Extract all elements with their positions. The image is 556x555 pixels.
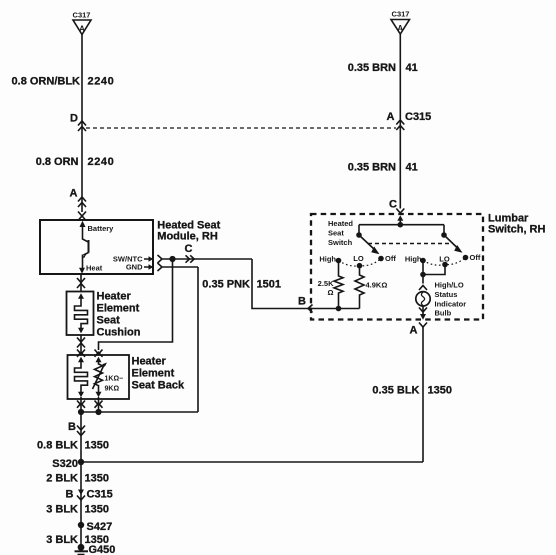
svg-text:0.35 PNK: 0.35 PNK bbox=[202, 279, 250, 291]
svg-text:Bulb: Bulb bbox=[435, 309, 452, 318]
svg-text:A: A bbox=[79, 25, 85, 34]
svg-text:Heater: Heater bbox=[132, 356, 167, 368]
svg-text:0.8 ORN: 0.8 ORN bbox=[36, 156, 79, 168]
svg-text:High: High bbox=[319, 255, 336, 264]
svg-text:Module, RH: Module, RH bbox=[157, 231, 218, 243]
svg-text:Indicator: Indicator bbox=[435, 300, 467, 309]
svg-text:High/LO: High/LO bbox=[435, 281, 464, 290]
svg-text:C315: C315 bbox=[405, 111, 431, 123]
svg-text:1350: 1350 bbox=[85, 440, 109, 452]
svg-text:1350: 1350 bbox=[85, 473, 109, 485]
svg-text:1KΩ−: 1KΩ− bbox=[105, 376, 124, 383]
svg-text:Off: Off bbox=[470, 253, 481, 262]
svg-text:S320: S320 bbox=[52, 458, 78, 470]
svg-text:A: A bbox=[397, 24, 403, 33]
svg-text:0.8 BLK: 0.8 BLK bbox=[37, 440, 78, 452]
svg-text:Seat: Seat bbox=[97, 315, 121, 327]
svg-text:B: B bbox=[298, 296, 306, 308]
svg-text:2.5K: 2.5K bbox=[318, 279, 334, 288]
svg-text:Seat Back: Seat Back bbox=[132, 380, 185, 392]
svg-text:Heated: Heated bbox=[328, 219, 353, 228]
svg-text:C315: C315 bbox=[87, 489, 113, 501]
svg-text:2240: 2240 bbox=[88, 156, 115, 168]
svg-text:B: B bbox=[68, 421, 76, 433]
svg-text:A: A bbox=[387, 111, 395, 123]
svg-text:Ω: Ω bbox=[327, 288, 333, 297]
svg-text:3 BLK: 3 BLK bbox=[46, 504, 78, 516]
svg-text:A: A bbox=[410, 325, 418, 337]
svg-text:LO: LO bbox=[439, 255, 450, 264]
svg-text:4.9KΩ: 4.9KΩ bbox=[366, 281, 388, 290]
svg-text:Seat: Seat bbox=[328, 229, 344, 238]
svg-text:Switch, RH: Switch, RH bbox=[488, 224, 546, 236]
svg-text:1350: 1350 bbox=[428, 385, 452, 397]
svg-text:G450: G450 bbox=[89, 544, 116, 555]
svg-text:9KΩ: 9KΩ bbox=[105, 386, 120, 393]
svg-text:C317: C317 bbox=[73, 11, 91, 20]
svg-text:Cushion: Cushion bbox=[97, 327, 141, 339]
svg-text:2 BLK: 2 BLK bbox=[46, 473, 78, 485]
svg-text:LO: LO bbox=[353, 254, 364, 263]
svg-text:Heater: Heater bbox=[97, 291, 132, 303]
svg-text:41: 41 bbox=[406, 62, 418, 74]
svg-text:Status: Status bbox=[435, 290, 458, 299]
svg-text:GND: GND bbox=[126, 263, 143, 272]
svg-text:Switch: Switch bbox=[328, 238, 353, 247]
svg-text:2240: 2240 bbox=[88, 76, 115, 88]
svg-text:Heat: Heat bbox=[86, 264, 103, 273]
svg-text:Element: Element bbox=[97, 303, 140, 315]
svg-text:B: B bbox=[66, 489, 74, 501]
svg-text:D: D bbox=[70, 113, 78, 125]
svg-text:Battery: Battery bbox=[88, 224, 115, 233]
svg-text:Element: Element bbox=[132, 368, 175, 380]
svg-text:1350: 1350 bbox=[85, 504, 109, 516]
svg-text:S427: S427 bbox=[87, 521, 113, 533]
svg-text:High: High bbox=[405, 255, 422, 264]
svg-text:0.35 BLK: 0.35 BLK bbox=[372, 385, 419, 397]
svg-text:Off: Off bbox=[385, 254, 396, 263]
svg-text:0.35 BRN: 0.35 BRN bbox=[348, 62, 396, 74]
svg-text:C: C bbox=[185, 243, 193, 255]
svg-text:1501: 1501 bbox=[257, 279, 281, 291]
svg-text:0.35 BRN: 0.35 BRN bbox=[348, 162, 396, 174]
svg-text:0.8 ORN/BLK: 0.8 ORN/BLK bbox=[12, 76, 81, 88]
svg-text:3 BLK: 3 BLK bbox=[46, 534, 78, 546]
svg-text:C317: C317 bbox=[392, 10, 410, 19]
svg-text:C: C bbox=[389, 199, 397, 211]
svg-text:41: 41 bbox=[406, 162, 418, 174]
svg-text:A: A bbox=[70, 188, 78, 200]
